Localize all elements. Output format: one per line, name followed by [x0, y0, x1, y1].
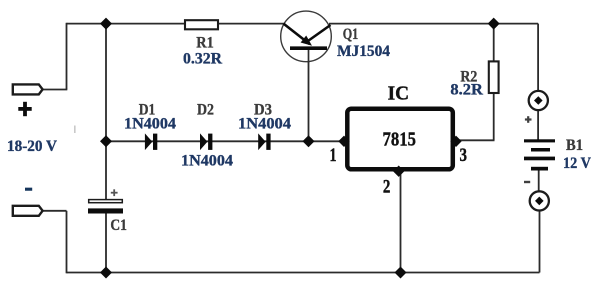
svg-text:1: 1 — [330, 146, 337, 166]
transistor Q1 — [281, 11, 332, 63]
wire bottom rail — [67, 272, 540, 274]
IC pin 1 marker — [338, 136, 349, 147]
wire pin3 horizontal — [455, 139, 495, 141]
wire top rail left segment — [42, 23, 540, 273]
svg-text:D2: D2 — [197, 100, 214, 119]
plus symbol battery — [525, 116, 532, 123]
svg-text:MJ1504: MJ1504 — [337, 41, 390, 60]
minus symbol battery — [524, 181, 530, 183]
node junction top right — [488, 18, 500, 30]
wire R2 bottom vertical — [493, 94, 495, 140]
svg-text:1N4004: 1N4004 — [181, 151, 233, 170]
wire R2 top vertical — [493, 24, 495, 61]
plus symbol input — [18, 102, 31, 116]
wire middle vertical to capacitor — [105, 141, 107, 199]
plus symbol C1 — [111, 189, 118, 196]
svg-text:1N4004: 1N4004 — [124, 114, 176, 133]
output terminal plus — [529, 91, 548, 110]
svg-text:C1: C1 — [110, 215, 127, 234]
capacitor C1 — [88, 200, 123, 214]
resistor R2 — [489, 61, 499, 93]
node junction bottom left — [100, 267, 112, 279]
wire middle vertical to diode row — [105, 24, 107, 142]
input terminal plus — [13, 84, 43, 94]
wire left input vertical — [66, 23, 68, 90]
diode D2 — [200, 133, 212, 150]
wire right vertical to plus terminal — [537, 24, 539, 92]
wire battery to minus terminal — [538, 171, 540, 193]
op-amp / regulator IC 7815 box — [347, 109, 453, 170]
wire IC pin2 vertical — [400, 172, 402, 273]
node junction bottom middle — [395, 267, 407, 279]
node junction diode row left — [100, 135, 112, 147]
diode D3 — [258, 133, 270, 150]
wire diode row — [106, 140, 345, 142]
svg-text:B1: B1 — [566, 135, 583, 154]
wire minus input horizontal — [42, 210, 67, 212]
wire plus terminal to battery — [537, 110, 539, 140]
wire minus terminal to bottom rail — [539, 210, 541, 273]
wire capacitor to bottom rail — [105, 214, 107, 273]
input terminal minus — [13, 206, 43, 216]
resistor R1 — [185, 20, 218, 29]
svg-text:12 V: 12 V — [563, 153, 591, 172]
IC pin 2 marker — [393, 166, 404, 177]
svg-text:8.2R: 8.2R — [450, 80, 483, 99]
node junction diode row right — [303, 135, 315, 147]
wire transistor base vertical — [308, 48, 310, 141]
svg-text:7815: 7815 — [383, 128, 417, 150]
svg-text:1N4004: 1N4004 — [238, 114, 291, 133]
wire top rail right segment — [329, 23, 538, 25]
svg-text:0.32R: 0.32R — [183, 49, 222, 68]
wire plus input horizontal — [42, 89, 67, 91]
IC pin 3 marker — [450, 136, 461, 147]
svg-text:18-20 V: 18-20 V — [7, 136, 57, 155]
node junction top left — [100, 18, 112, 30]
wire left bottom vertical — [66, 211, 68, 273]
svg-text:3: 3 — [459, 146, 467, 166]
diode D1 — [145, 133, 157, 150]
svg-text:2: 2 — [383, 178, 391, 198]
output terminal minus — [530, 191, 549, 210]
battery B1 plates — [524, 139, 555, 170]
faint scan artifact streak — [74, 126, 76, 134]
svg-text:IC: IC — [388, 83, 410, 104]
minus symbol input — [25, 188, 32, 191]
